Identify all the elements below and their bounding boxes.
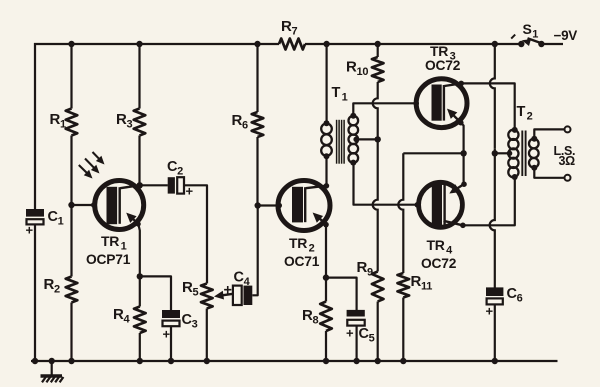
node bias divider junction <box>375 136 381 142</box>
svg-text:3Ω: 3Ω <box>559 154 576 168</box>
capacitor C2 <box>168 177 194 198</box>
svg-text:+: + <box>163 327 171 342</box>
wire C2 to R5 top <box>185 185 208 283</box>
svg-text:9: 9 <box>367 267 373 279</box>
svg-text:6: 6 <box>517 293 523 305</box>
resistor R2 <box>66 277 78 303</box>
wire R1 top lead <box>70 44 72 109</box>
wire TR3 collector to T2 primary top <box>458 81 514 130</box>
svg-text:R: R <box>302 307 313 324</box>
wire TR2 emitter lead <box>323 222 329 302</box>
svg-text:TR: TR <box>101 233 119 249</box>
svg-text:+: + <box>486 304 494 319</box>
label C4 <box>234 270 251 289</box>
node TR2 emitter junction <box>323 274 329 280</box>
svg-text:R: R <box>281 18 292 35</box>
svg-text:6: 6 <box>242 120 248 132</box>
svg-text:R: R <box>44 276 55 293</box>
wire TR2 emitter to C5 <box>326 278 357 311</box>
transistor TR1 <box>95 181 144 230</box>
label R11 <box>411 273 433 293</box>
wire TR2 base lead <box>258 203 282 209</box>
svg-text:TR: TR <box>289 235 307 251</box>
wire T1 secondary bottom to TR4 base <box>354 163 421 208</box>
node TR1 emitter junction <box>137 273 143 279</box>
wire R11 bottom lead <box>400 298 406 365</box>
resistor R1 <box>66 109 78 136</box>
capacitor C1 <box>26 209 45 238</box>
svg-text:R: R <box>116 111 127 128</box>
label TR3 <box>430 43 456 63</box>
label C3 <box>182 312 198 331</box>
resistor R10 <box>372 57 384 82</box>
wire R1 to R2 segment <box>70 136 72 277</box>
wire TR1 collector to C2 <box>140 184 168 186</box>
svg-text:OC71: OC71 <box>284 254 320 269</box>
node TR1 collector junction <box>137 182 143 188</box>
label TR2 <box>289 235 315 255</box>
svg-text:7: 7 <box>292 26 298 38</box>
wire centre tap node to R9 with crossover hop <box>373 139 378 271</box>
label OCP71 for TR1 <box>86 252 131 267</box>
label R4 <box>113 306 131 326</box>
svg-text:+: + <box>346 326 354 341</box>
loudspeaker terminal lower <box>565 175 571 181</box>
capacitor C5 <box>346 310 365 341</box>
resistor R9 <box>372 272 384 302</box>
wire C6 bottom lead <box>492 305 498 364</box>
label TR4 <box>427 237 454 257</box>
label R7 <box>281 18 298 38</box>
label R6 <box>232 112 249 132</box>
transformer T2 core <box>522 131 525 177</box>
transistor TR3 <box>416 79 467 128</box>
wire TR2 collector to T1 primary <box>324 156 330 188</box>
potentiometer R5 wiper arrow <box>214 291 233 300</box>
svg-text:+: + <box>26 223 34 238</box>
resistor R7 <box>279 39 305 50</box>
wire -9V supply top rail, left section <box>34 41 279 47</box>
transformer T1 centre tap wire <box>353 137 377 143</box>
label T2 <box>517 104 533 123</box>
wire TR1 base lead <box>72 202 97 208</box>
svg-text:1: 1 <box>121 241 127 253</box>
resistor R8 <box>320 302 332 332</box>
wire left rail upper segment <box>34 43 36 210</box>
svg-text:2: 2 <box>309 243 315 255</box>
svg-text:T: T <box>517 104 526 120</box>
svg-text:+: + <box>224 283 232 299</box>
label R2 <box>44 276 61 296</box>
wire battery lead <box>541 43 563 45</box>
resistor R3 <box>134 109 146 136</box>
label R8 <box>302 307 319 327</box>
wire R2 bottom lead <box>68 303 74 365</box>
svg-text:1: 1 <box>60 119 66 131</box>
label C5 <box>359 326 375 345</box>
wire -9V supply top rail, right section <box>305 41 521 47</box>
svg-text:3: 3 <box>192 319 198 331</box>
svg-text:5: 5 <box>369 333 375 345</box>
node output emitters junction <box>460 150 466 156</box>
label R10 <box>346 59 368 79</box>
node TR2 base junction <box>255 202 261 208</box>
capacitor C3 <box>162 310 180 342</box>
svg-text:11: 11 <box>421 281 432 293</box>
svg-text:R: R <box>346 59 357 76</box>
svg-text:R: R <box>113 306 124 323</box>
wire R3 top lead <box>138 44 140 109</box>
svg-text:S: S <box>523 21 532 37</box>
wire R5 bottom lead <box>204 309 210 365</box>
wire TR1 emitter to C3 <box>140 276 171 310</box>
svg-text:R: R <box>50 111 61 128</box>
wire R10 to centre tap node with crossover hop <box>373 82 378 139</box>
transformer T1 primary winding <box>321 120 332 159</box>
label C1 <box>48 209 64 228</box>
transistor TR2 <box>278 181 330 231</box>
wire R8 bottom lead <box>323 331 329 364</box>
svg-text:2: 2 <box>527 111 533 123</box>
label R9 <box>357 259 374 279</box>
ground <box>41 358 64 383</box>
wire R4 leads <box>137 276 143 364</box>
label L.S. loudspeaker <box>554 144 576 158</box>
resistor R11 <box>398 273 410 298</box>
wire T2 secondary bottom to terminal <box>534 168 564 178</box>
svg-text:2: 2 <box>177 166 183 178</box>
light arrows into TR1 <box>79 152 105 179</box>
capacitor C6 <box>486 287 504 318</box>
svg-text:R: R <box>232 112 243 129</box>
switch S1 <box>511 35 544 48</box>
wire rail to T2 centre tap <box>495 151 513 157</box>
svg-text:10: 10 <box>357 66 369 78</box>
svg-text:OCP71: OCP71 <box>86 252 131 267</box>
wire T1 secondary top to TR3 base <box>353 101 419 116</box>
svg-text:3: 3 <box>127 119 133 131</box>
label R1 <box>50 111 67 131</box>
svg-text:T: T <box>332 85 341 101</box>
capacitor C4 <box>224 283 253 306</box>
wire TR3 emitter to TR4 emitter <box>458 120 467 187</box>
transformer T2 primary winding <box>508 127 518 180</box>
potentiometer R5 <box>201 284 213 309</box>
label S1 <box>523 21 539 41</box>
svg-text:OC72: OC72 <box>421 256 457 271</box>
transformer T1 secondary winding <box>349 113 359 166</box>
wire C3 bottom lead <box>168 327 174 364</box>
label T1 <box>332 85 348 104</box>
node TR1 base junction <box>68 202 74 208</box>
wire left rail lower segment <box>32 224 38 364</box>
wire T1 primary top lead <box>326 44 328 123</box>
transistor TR4 <box>419 182 465 227</box>
wire T2 secondary top to terminal <box>534 129 564 138</box>
wire R9 bottom lead <box>375 302 381 365</box>
label -9V battery <box>554 28 578 43</box>
resistor R6 <box>252 112 264 137</box>
svg-text:TR: TR <box>427 237 445 253</box>
label R3 <box>116 111 133 131</box>
wire R6 top lead <box>256 44 258 112</box>
wire emitters to R11 with crossover hop <box>398 153 463 273</box>
svg-text:R: R <box>357 259 368 276</box>
transformer T2 secondary winding <box>529 136 539 171</box>
wire R3 bottom lead to TR1 collector <box>138 136 140 186</box>
wire 0V bottom earth rail <box>31 360 558 362</box>
svg-text:OC72: OC72 <box>425 58 461 73</box>
svg-text:R: R <box>182 279 193 296</box>
label C2 <box>167 159 183 178</box>
wire C5 bottom lead <box>353 326 359 365</box>
transformer T1 core <box>337 120 345 164</box>
svg-text:TR: TR <box>430 43 448 59</box>
svg-text:1: 1 <box>532 29 538 41</box>
svg-text:R: R <box>411 273 422 290</box>
svg-text:2: 2 <box>54 284 60 296</box>
wire C4 to TR2 base node <box>252 206 257 295</box>
label C6 <box>507 286 523 305</box>
wire -9V rail down with crossover hops <box>490 43 495 288</box>
loudspeaker terminal upper <box>565 126 571 132</box>
svg-text:1: 1 <box>342 92 348 104</box>
svg-text:8: 8 <box>313 315 319 327</box>
label OC72 for TR4 <box>421 256 457 271</box>
label R5 <box>182 279 199 299</box>
label OC71 for TR2 <box>284 254 320 269</box>
wire R10 top lead <box>377 44 379 57</box>
wire TR4 collector to T2 primary bottom <box>460 177 515 228</box>
resistor R4 <box>134 307 146 334</box>
svg-text:5: 5 <box>193 287 199 299</box>
svg-text:−9V: −9V <box>554 28 578 43</box>
svg-text:1: 1 <box>58 216 64 228</box>
label TR1 <box>101 233 127 253</box>
node T2 centre tap to rail junction <box>492 150 498 156</box>
label 3 ohms <box>559 154 576 168</box>
wire R6 bottom lead <box>256 137 258 206</box>
wire TR1 emitter lead <box>136 221 141 276</box>
label OC72 for TR3 <box>425 58 461 73</box>
